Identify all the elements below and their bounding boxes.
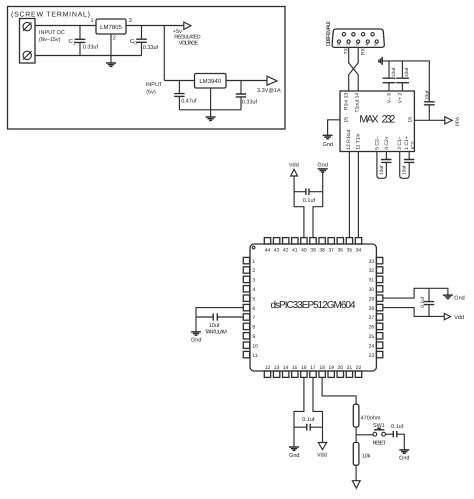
PIC bottom pin numbers bbox=[265, 365, 362, 371]
Vdd arrow MAX232 bbox=[445, 117, 452, 124]
svg-text:INPUT DC: INPUT DC bbox=[39, 30, 65, 36]
svg-text:R1in 13: R1in 13 bbox=[344, 93, 350, 110]
svg-text:dsPIC33EP512GM604: dsPIC33EP512GM604 bbox=[271, 300, 356, 311]
svg-text:Vdd: Vdd bbox=[317, 453, 327, 459]
pin 1 bbox=[90, 18, 93, 24]
svg-text:0.33uf: 0.33uf bbox=[83, 45, 99, 51]
wire 10k to vss bbox=[355, 465, 357, 480]
label Gnd below PIC bbox=[289, 453, 299, 459]
wire PIC pin18 to reset bbox=[322, 377, 356, 404]
capacitor 0.33uf output bbox=[236, 81, 246, 110]
svg-text:10: 10 bbox=[252, 343, 258, 349]
svg-text:Gnd: Gnd bbox=[191, 338, 201, 344]
svg-text:40: 40 bbox=[301, 247, 307, 253]
3.3V output arrow bbox=[267, 76, 277, 85]
svg-text:25: 25 bbox=[369, 334, 375, 340]
wire junction to LM3940 bbox=[164, 80, 194, 82]
PIC right pin numbers bbox=[369, 259, 375, 359]
svg-text:(5v): (5v) bbox=[146, 90, 156, 96]
label 470ohm bbox=[361, 416, 381, 422]
Vdd symbol above PIC bbox=[289, 163, 299, 176]
pin label 4 C2+ bbox=[384, 136, 390, 150]
wire LM7805 pin3 to +5v arrow bbox=[126, 25, 184, 27]
resistor 10k bbox=[353, 442, 359, 465]
svg-text:10uf: 10uf bbox=[402, 165, 408, 175]
resistor 470ohm bbox=[353, 404, 359, 427]
label Gnd reset bbox=[399, 455, 409, 461]
wire LM7805 pin2 down bbox=[110, 34, 112, 63]
svg-text:27: 27 bbox=[369, 315, 375, 321]
svg-text:RX: RX bbox=[361, 47, 367, 55]
power supply enclosure box bbox=[8, 7, 286, 130]
label 0.1uf right of PIC bbox=[420, 296, 426, 308]
svg-text:12 R1out: 12 R1out bbox=[346, 129, 352, 150]
pin label V+ 2 bbox=[398, 93, 404, 104]
svg-text:8: 8 bbox=[252, 325, 255, 331]
label RX bbox=[361, 47, 367, 55]
svg-text:43: 43 bbox=[274, 247, 280, 253]
label Gnd right of PIC bbox=[454, 296, 464, 302]
label 0.33uf C0 bbox=[143, 45, 159, 51]
label input 5v bbox=[146, 82, 163, 96]
regulator U1 LM7805 bbox=[96, 19, 126, 34]
svg-text:18: 18 bbox=[319, 365, 325, 371]
wire PIC pin29 to top rail bbox=[383, 288, 448, 298]
svg-text:Vdd: Vdd bbox=[453, 117, 459, 126]
label 10uf V+ bbox=[404, 67, 410, 77]
PIC right pins bbox=[376, 257, 382, 357]
label 10uf Vdd bbox=[424, 90, 430, 100]
PIC top pins bbox=[264, 238, 361, 244]
svg-text:(8v–15v): (8v–15v) bbox=[39, 37, 61, 43]
label 10k bbox=[362, 453, 371, 459]
PIC left pin numbers bbox=[252, 259, 258, 359]
svg-text:LM3940: LM3940 bbox=[199, 78, 221, 85]
wire MAX232 pin16 Vdd rail bbox=[414, 119, 444, 121]
+5v output arrow bbox=[184, 22, 191, 29]
label 0.47uf bbox=[181, 99, 197, 105]
switch SW1 reset bbox=[373, 428, 386, 437]
svg-text:17: 17 bbox=[310, 365, 316, 371]
svg-text:232: 232 bbox=[382, 114, 396, 126]
svg-text:1: 1 bbox=[252, 259, 255, 265]
wire MAX232 pin15 to gnd bbox=[328, 120, 340, 135]
svg-text:20: 20 bbox=[338, 365, 344, 371]
label Gnd left of PIC bbox=[191, 338, 201, 344]
svg-text:6: 6 bbox=[252, 306, 255, 312]
svg-text:Gnd: Gnd bbox=[289, 453, 299, 459]
pin label T1out 14 bbox=[354, 93, 360, 113]
svg-text:38: 38 bbox=[319, 247, 325, 253]
svg-text:31: 31 bbox=[369, 278, 375, 284]
svg-text:10uf: 10uf bbox=[424, 90, 430, 100]
svg-text:0.1uf: 0.1uf bbox=[420, 296, 426, 308]
svg-text:16: 16 bbox=[408, 117, 414, 123]
svg-text:15: 15 bbox=[344, 117, 350, 123]
label 3.3V@1A bbox=[257, 88, 281, 94]
label Gnd above PIC bbox=[317, 163, 327, 169]
svg-text:26: 26 bbox=[369, 325, 375, 331]
capacitor 0.1uf right of PIC bbox=[424, 288, 434, 316]
wire bottom rail LM3940 bbox=[179, 109, 241, 111]
capacitor 0.1uf above PIC bbox=[294, 188, 323, 195]
capacitor C1 bbox=[75, 26, 86, 56]
svg-text:36: 36 bbox=[338, 247, 344, 253]
svg-text:VOLTAGE: VOLTAGE bbox=[179, 40, 199, 46]
regulator U2 LM3940 bbox=[195, 74, 227, 89]
svg-text:10uf: 10uf bbox=[379, 165, 385, 175]
svg-text:10uf: 10uf bbox=[209, 323, 220, 329]
label 10uf C1 bbox=[402, 165, 408, 175]
label 10uf tantalum bbox=[205, 323, 227, 335]
wire LM3940 out to arrow bbox=[226, 80, 267, 82]
svg-text:33: 33 bbox=[369, 259, 375, 265]
wire top charge rail bbox=[382, 61, 429, 102]
pin label 16 bbox=[408, 117, 414, 123]
svg-text:470ohm: 470ohm bbox=[361, 416, 381, 422]
svg-text:5 C2–: 5 C2– bbox=[375, 136, 381, 150]
capacitor C0 bbox=[136, 26, 147, 56]
label Vdd below PIC bbox=[317, 453, 327, 459]
ground reset bbox=[399, 450, 409, 453]
capacitor 0.1uf reset bbox=[393, 431, 404, 450]
capacitor 10uf V+ bbox=[396, 61, 409, 91]
svg-text:0.1uf: 0.1uf bbox=[303, 198, 316, 204]
svg-text:11 T1in: 11 T1in bbox=[356, 133, 362, 149]
ground under LM7805 bbox=[106, 63, 116, 66]
svg-text:INPUT: INPUT bbox=[146, 82, 163, 88]
svg-text:44: 44 bbox=[265, 247, 271, 253]
label Vdd right of PIC bbox=[454, 315, 464, 321]
PIC top pin numbers bbox=[265, 247, 362, 253]
Vdd symbol below PIC bbox=[318, 443, 326, 450]
pin 2 bbox=[113, 36, 116, 42]
pin label 12 R1out bbox=[346, 129, 352, 150]
DB9 pin 3 bbox=[355, 40, 360, 46]
svg-text:13: 13 bbox=[274, 365, 280, 371]
svg-text:Gnd: Gnd bbox=[323, 142, 333, 148]
svg-text:MAX: MAX bbox=[359, 114, 378, 126]
svg-text:5: 5 bbox=[252, 296, 255, 302]
capacitor 10uf V- bbox=[383, 61, 396, 91]
svg-text:37: 37 bbox=[328, 247, 334, 253]
connector DB9 outline bbox=[332, 29, 384, 47]
svg-text:3: 3 bbox=[129, 18, 132, 24]
label +5v regulated voltage bbox=[173, 29, 201, 47]
label 10uf C2 bbox=[379, 165, 385, 175]
svg-text:Vdd: Vdd bbox=[289, 163, 299, 169]
wire PIC pin16 down bbox=[294, 377, 304, 446]
label 10uf V- bbox=[391, 67, 397, 77]
svg-text:(SCREW TERMINAL): (SCREW TERMINAL) bbox=[11, 11, 90, 19]
svg-text:LM7805: LM7805 bbox=[100, 24, 122, 31]
svg-text:11: 11 bbox=[252, 353, 257, 359]
svg-text:2: 2 bbox=[252, 268, 255, 274]
svg-text:9: 9 bbox=[252, 334, 255, 340]
pin label 15 bbox=[344, 117, 350, 123]
ground above PIC bbox=[318, 169, 328, 172]
wire bottom rail bbox=[35, 55, 142, 57]
wire MAX232 pin12 to PIC pin35 bbox=[348, 152, 350, 238]
label RESET bbox=[372, 440, 386, 446]
DB9 pin 1 bbox=[336, 40, 341, 46]
wire resistor junction bbox=[356, 427, 373, 442]
label 0.1uf reset bbox=[391, 424, 404, 430]
capacitor 0.1uf below PIC bbox=[294, 424, 323, 431]
label Gnd MAX232 bbox=[323, 142, 333, 148]
pin label 5 C2- bbox=[375, 136, 381, 150]
Vdd arrow right of PIC bbox=[444, 313, 450, 319]
svg-text:0.47uf: 0.47uf bbox=[181, 99, 197, 105]
ground sideways at charge rail bbox=[379, 57, 382, 65]
svg-text:0.1uf: 0.1uf bbox=[302, 417, 315, 423]
label screw terminal bbox=[11, 11, 90, 19]
svg-text:19: 19 bbox=[328, 365, 334, 371]
label 0.1uf above PIC bbox=[303, 198, 316, 204]
svg-text:3: 3 bbox=[252, 278, 255, 284]
ground left of PIC bbox=[191, 332, 201, 335]
IC U3 MAX232 bbox=[340, 91, 414, 152]
label C1 bbox=[69, 38, 76, 45]
wire RX crossover bbox=[349, 47, 359, 91]
wire switch to cap bbox=[386, 433, 394, 435]
label SW1 bbox=[373, 423, 385, 429]
svg-text:42: 42 bbox=[283, 247, 289, 253]
svg-text:10k: 10k bbox=[362, 453, 371, 459]
pin label R1in 13 bbox=[344, 93, 350, 110]
svg-text:35: 35 bbox=[347, 247, 353, 253]
svg-text:2: 2 bbox=[113, 36, 116, 42]
wire PIC pin6 to gnd bbox=[196, 308, 243, 332]
svg-text:0.33uf: 0.33uf bbox=[143, 45, 159, 51]
pin label 11 T1in bbox=[356, 133, 362, 149]
svg-text:4 C2+: 4 C2+ bbox=[384, 136, 390, 150]
DB9 pin 4 bbox=[365, 40, 370, 46]
svg-text:29: 29 bbox=[369, 296, 375, 302]
wire PIC pin28 to bottom rail bbox=[383, 308, 444, 317]
wire PIC pin17 down bbox=[313, 377, 323, 442]
svg-text:SW1: SW1 bbox=[373, 423, 385, 429]
IC U4 dsPIC33EP512GM604 bbox=[250, 244, 376, 371]
capacitor 0.47uf bbox=[174, 81, 184, 110]
wire Vdd to pin40 bbox=[294, 176, 304, 238]
DB9 top row sockets bbox=[342, 33, 374, 36]
capacitor 10uf Vdd rail bbox=[424, 102, 435, 121]
svg-text:7: 7 bbox=[252, 315, 255, 321]
svg-text:V+ 2: V+ 2 bbox=[398, 93, 404, 104]
svg-text:34: 34 bbox=[356, 247, 362, 253]
label 0.1uf below PIC bbox=[302, 417, 315, 423]
svg-text:21: 21 bbox=[347, 365, 353, 371]
svg-text:32: 32 bbox=[369, 268, 375, 274]
svg-text:Gnd: Gnd bbox=[317, 163, 327, 169]
wire gnd to pin39 bbox=[313, 173, 323, 238]
pin label 3 C1- bbox=[397, 136, 403, 150]
DB9 pin 5 bbox=[374, 40, 379, 46]
svg-text:Gnd: Gnd bbox=[454, 296, 464, 302]
svg-text:1: 1 bbox=[90, 18, 93, 24]
PIC bottom pins bbox=[264, 371, 361, 377]
label Vdd MAX232 bbox=[453, 117, 459, 126]
svg-text:3.3V@1A: 3.3V@1A bbox=[257, 88, 281, 94]
svg-text:22: 22 bbox=[356, 365, 362, 371]
Vss arrow bottom bbox=[352, 481, 360, 489]
ground under LM3940 bbox=[206, 117, 216, 120]
pin label V- 6 bbox=[387, 93, 393, 104]
ground below PIC bbox=[289, 447, 299, 450]
node +5v junction bbox=[163, 26, 165, 81]
DB9 pin 2 bbox=[345, 40, 350, 46]
svg-text:V– 6: V– 6 bbox=[387, 93, 393, 104]
label TX bbox=[344, 47, 350, 54]
svg-text:39: 39 bbox=[310, 247, 316, 253]
PIC left pins bbox=[243, 257, 249, 357]
svg-text:3 C1–: 3 C1– bbox=[397, 136, 403, 150]
pin 3 bbox=[129, 18, 132, 24]
label IC2 bbox=[411, 141, 417, 149]
svg-text:0.1uf: 0.1uf bbox=[391, 424, 404, 430]
svg-text:RESET: RESET bbox=[372, 440, 386, 446]
wire LM3940 gnd pin bbox=[210, 88, 212, 117]
svg-text:16: 16 bbox=[301, 365, 307, 371]
svg-text:4: 4 bbox=[252, 287, 255, 293]
screw terminal J1 bbox=[20, 19, 36, 64]
svg-text:24: 24 bbox=[369, 343, 375, 349]
wire TX crossover bbox=[349, 47, 359, 91]
label 0.33uf bbox=[83, 45, 99, 51]
svg-text:28: 28 bbox=[369, 306, 375, 312]
svg-text:15: 15 bbox=[292, 365, 298, 371]
svg-text:T1out 14: T1out 14 bbox=[354, 93, 360, 113]
wire terminal to LM7805 pin1 bbox=[35, 25, 96, 27]
pin label 1 C1+ bbox=[404, 136, 410, 150]
svg-text:1 C1+: 1 C1+ bbox=[404, 136, 410, 150]
svg-text:23: 23 bbox=[369, 353, 375, 359]
svg-text:Gnd: Gnd bbox=[399, 455, 409, 461]
label DB9 FEMALE bbox=[326, 20, 332, 46]
label 0.33uf output bbox=[242, 99, 258, 105]
svg-text:30: 30 bbox=[369, 287, 375, 293]
svg-text:10uf: 10uf bbox=[391, 67, 397, 77]
label input dc bbox=[39, 30, 65, 43]
capacitor C1 10uf bbox=[400, 152, 415, 179]
svg-text:0.33uf: 0.33uf bbox=[242, 99, 258, 105]
capacitor 10uf tantalum bbox=[196, 313, 243, 320]
wire MAX232 pin11 to PIC pin34 bbox=[357, 152, 359, 238]
svg-text:TANTULAM: TANTULAM bbox=[205, 330, 227, 336]
label C0 bbox=[130, 38, 137, 45]
ground MAX232 pin15 bbox=[323, 135, 333, 138]
ground right of PIC bbox=[443, 295, 453, 298]
svg-text:12: 12 bbox=[265, 365, 271, 371]
svg-text:10uf: 10uf bbox=[404, 67, 410, 77]
capacitor C2 10uf bbox=[377, 152, 392, 179]
svg-text:DB9 FEMALE: DB9 FEMALE bbox=[326, 20, 332, 46]
svg-text:41: 41 bbox=[292, 247, 298, 253]
svg-text:IC2: IC2 bbox=[411, 141, 417, 149]
svg-text:Vdd: Vdd bbox=[454, 315, 464, 321]
svg-text:14: 14 bbox=[283, 365, 289, 371]
